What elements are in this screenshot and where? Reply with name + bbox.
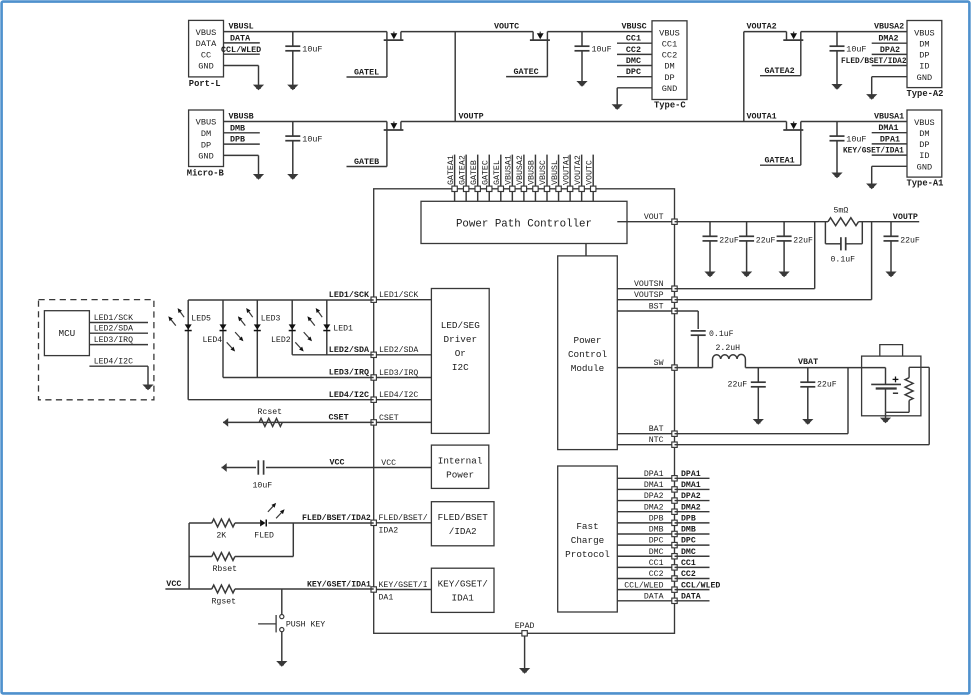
- svg-text:DPA1: DPA1: [880, 134, 900, 144]
- svg-text:Micro-B: Micro-B: [187, 169, 225, 179]
- transistor GATEB FET: [384, 122, 404, 131]
- svg-text:DP: DP: [664, 73, 674, 83]
- capacitor 0.1uF (BST): [691, 330, 734, 367]
- svg-text:VOUTSP: VOUTSP: [634, 291, 664, 300]
- svg-text:KEY/GSET/IDA1: KEY/GSET/IDA1: [307, 579, 371, 589]
- svg-text:VBUSA2: VBUSA2: [874, 22, 904, 32]
- svg-text:CC2: CC2: [626, 45, 641, 55]
- svg-text:DA1: DA1: [379, 593, 394, 602]
- ground Type-A2: [866, 94, 877, 100]
- svg-text:VBUSA1: VBUSA1: [505, 155, 514, 185]
- wire junction VOUTC/VOUTP: [454, 32, 456, 122]
- wire SW row: [675, 367, 713, 369]
- svg-text:0.1uF: 0.1uF: [709, 330, 734, 339]
- svg-text:GND: GND: [662, 84, 677, 94]
- pin VOUTSN (right): [617, 280, 677, 291]
- svg-text:Type-A1: Type-A1: [907, 178, 944, 188]
- svg-text:ID: ID: [919, 151, 929, 161]
- pin DPB (right FCP): [617, 514, 677, 525]
- svg-text:CC1: CC1: [681, 559, 696, 568]
- wire LED2 rail: [291, 300, 293, 355]
- svg-text:CC2: CC2: [662, 51, 677, 61]
- svg-text:IDA2: IDA2: [379, 527, 399, 536]
- svg-text:VBUSL: VBUSL: [551, 160, 560, 185]
- svg-text:Type-C: Type-C: [654, 101, 686, 111]
- svg-text:10uF: 10uF: [302, 135, 322, 145]
- svg-text:LED3/IRQ: LED3/IRQ: [94, 335, 133, 345]
- pin VOUTC (top): [585, 155, 596, 202]
- pin VOUTA1 (top): [562, 155, 573, 202]
- wire stub DPA1: [872, 134, 907, 144]
- svg-text:DPA2: DPA2: [644, 492, 664, 501]
- wire Type-A1 GND: [872, 166, 907, 184]
- svg-text:BAT: BAT: [649, 425, 664, 434]
- wire VOUTSP trace: [675, 222, 872, 300]
- svg-text:DATA: DATA: [644, 592, 664, 601]
- wire GATEL gate: [347, 40, 387, 77]
- ground Micro-B: [253, 174, 264, 180]
- svg-text:DPA2: DPA2: [880, 45, 900, 55]
- wire row2 GATEA1-TypeA1: [801, 121, 907, 123]
- svg-text:DPB: DPB: [649, 514, 664, 523]
- svg-text:VBUSC: VBUSC: [539, 160, 548, 185]
- svg-text:Driver: Driver: [444, 334, 477, 345]
- resistor 2K: [212, 519, 235, 527]
- svg-text:CC2: CC2: [681, 570, 696, 579]
- wire VCC net: [222, 467, 374, 469]
- svg-text:GND: GND: [917, 73, 932, 83]
- svg-text:VOUTP: VOUTP: [893, 212, 918, 222]
- wire stub CC2 (external): [675, 570, 710, 579]
- pin CCL/WLED (right FCP): [617, 580, 677, 592]
- svg-text:2K: 2K: [216, 531, 226, 540]
- wire LED1/SCK net: [188, 299, 374, 301]
- svg-text:CC2: CC2: [649, 570, 664, 579]
- svg-text:LED2: LED2: [271, 336, 291, 345]
- svg-text:CCL/WLED: CCL/WLED: [681, 580, 720, 590]
- block Internal Power: [431, 445, 488, 488]
- pin NTC (right): [617, 436, 677, 447]
- ground Port-L: [253, 85, 264, 91]
- pin VBUSB (top): [528, 155, 539, 202]
- wire GATEA2 gate: [760, 40, 801, 76]
- svg-text:22uF: 22uF: [817, 380, 837, 389]
- ground Type-A1: [866, 184, 877, 190]
- wire Micro-B GND: [224, 155, 259, 174]
- svg-text:GATEA2: GATEA2: [765, 66, 795, 76]
- svg-text:LED2/SDA: LED2/SDA: [379, 345, 418, 355]
- pin CC1 (right FCP): [617, 559, 677, 570]
- svg-text:DMC: DMC: [626, 56, 641, 66]
- svg-text:DMA2: DMA2: [681, 503, 701, 512]
- svg-text:Port-L: Port-L: [189, 79, 221, 89]
- pin CSET (left): [371, 414, 431, 425]
- svg-text:22uF: 22uF: [728, 380, 748, 389]
- wire stub CCL/WLED (external): [675, 580, 721, 590]
- wire push key to ground: [281, 632, 283, 662]
- svg-text:GND: GND: [198, 62, 213, 72]
- svg-text:GATEA2: GATEA2: [458, 155, 467, 185]
- svg-text:DM: DM: [201, 129, 211, 139]
- transistor GATEA1 FET: [783, 122, 803, 131]
- svg-text:VBUS: VBUS: [914, 118, 935, 128]
- pin GATEB (top): [470, 155, 481, 202]
- transistor GATEC FET: [530, 32, 550, 40]
- connector Type-A1: [907, 110, 944, 188]
- svg-text:Module: Module: [571, 363, 604, 374]
- svg-text:IDA1: IDA1: [452, 593, 475, 604]
- capacitor 10uF (Micro-B): [285, 122, 322, 180]
- resistor 5mOhm sense: [828, 218, 859, 226]
- wire VBUSB from Micro-B: [224, 121, 387, 123]
- wire stub KEY/GSET/IDA1 (Type-A1): [843, 148, 907, 156]
- svg-text:CCL/WLED: CCL/WLED: [624, 580, 663, 590]
- capacitor 10uF (Type-C): [575, 32, 612, 87]
- svg-text:VCC: VCC: [381, 459, 396, 468]
- connector Type-A2: [907, 21, 944, 99]
- wire NTC trace: [675, 367, 930, 444]
- svg-text:10uF: 10uF: [592, 45, 612, 55]
- pin LED3/IRQ (left): [371, 368, 431, 380]
- capacitor 0.1uF sense bypass: [825, 222, 862, 265]
- svg-text:DPC: DPC: [649, 537, 664, 546]
- wire stub DPA2: [872, 45, 907, 55]
- svg-text:KEY/GSET/I: KEY/GSET/I: [379, 580, 428, 590]
- pin LED2/SDA (left): [371, 345, 431, 357]
- wire PPC to PCM: [585, 244, 587, 256]
- svg-text:DPA1: DPA1: [644, 470, 664, 479]
- svg-text:2.2uH: 2.2uH: [716, 344, 741, 353]
- wire LED5 rail: [187, 300, 189, 400]
- wire BST trace: [675, 311, 699, 329]
- svg-text:VBUSA1: VBUSA1: [874, 112, 904, 122]
- svg-text:VBAT: VBAT: [798, 357, 818, 367]
- svg-text:KEY/GSET/: KEY/GSET/: [438, 579, 489, 590]
- svg-text:VOUTC: VOUTC: [494, 22, 519, 32]
- wire row1 GATEA2-TypeA2: [801, 31, 907, 33]
- resistor Rbset: [212, 553, 235, 561]
- diode LED2: [289, 324, 296, 329]
- svg-text:/IDA2: /IDA2: [449, 526, 477, 537]
- svg-text:CC: CC: [201, 50, 211, 60]
- pin FLED/BSET/IDA2 (left): [371, 513, 431, 535]
- svg-text:FLED/BSET/IDA2: FLED/BSET/IDA2: [841, 58, 907, 66]
- svg-text:DP: DP: [919, 140, 929, 150]
- capacitor 22uF #2 (VOUT): [739, 222, 775, 278]
- svg-text:LED4/I2C: LED4/I2C: [379, 390, 418, 400]
- svg-text:NTC: NTC: [649, 436, 664, 445]
- svg-text:10uF: 10uF: [253, 482, 273, 491]
- svg-text:VOUTC: VOUTC: [585, 160, 594, 185]
- LED4 emission arrows: [227, 332, 244, 351]
- svg-text:VCC: VCC: [330, 458, 345, 468]
- wire MCU LED2/SDA: [89, 324, 148, 334]
- svg-text:0.1uF: 0.1uF: [831, 256, 856, 265]
- pin KEY/GSET/IDA1 (left): [371, 580, 431, 602]
- wire stub CC2 (Type-C): [617, 45, 652, 55]
- svg-text:DMA1: DMA1: [681, 481, 701, 490]
- pin VOUTSP (right): [617, 291, 677, 302]
- wire stub DATA: [224, 33, 260, 43]
- svg-text:VBUS: VBUS: [659, 28, 680, 38]
- svg-text:10uF: 10uF: [302, 45, 322, 55]
- wire row1 GATEC-TypeC: [547, 31, 652, 33]
- svg-text:DMA2: DMA2: [878, 34, 898, 44]
- capacitor 22uF (VOUTP): [884, 222, 920, 278]
- wire stub DPB (external): [675, 514, 710, 523]
- pin EPAD (bottom): [515, 622, 535, 669]
- svg-text:DMB: DMB: [649, 526, 664, 535]
- pin DPC (right FCP): [617, 537, 677, 548]
- svg-text:VOUTA1: VOUTA1: [562, 155, 571, 185]
- svg-text:FLED/BSET: FLED/BSET: [438, 512, 489, 523]
- svg-text:Control: Control: [568, 349, 607, 360]
- svg-text:Power: Power: [446, 469, 474, 480]
- svg-text:EPAD: EPAD: [515, 622, 535, 631]
- svg-text:Power: Power: [574, 335, 602, 346]
- LED2 emission arrows: [295, 332, 312, 351]
- svg-text:GATEC: GATEC: [481, 160, 490, 185]
- pin LED4/I2C (left): [371, 390, 431, 402]
- svg-text:DPB: DPB: [230, 135, 245, 145]
- svg-text:22uF: 22uF: [900, 236, 920, 245]
- block MCU: [44, 311, 89, 356]
- svg-text:GATEL: GATEL: [354, 67, 379, 77]
- svg-text:DATA: DATA: [196, 39, 217, 49]
- wire stub CCL/WLED: [221, 45, 261, 55]
- thermistor NTC (in pack): [905, 367, 913, 412]
- wire VOUTSN trace: [675, 222, 815, 289]
- capacitor 22uF (VBAT): [800, 368, 836, 425]
- svg-text:Protocol: Protocol: [565, 549, 610, 560]
- svg-text:Rgset: Rgset: [212, 598, 237, 607]
- svg-text:CC1: CC1: [626, 34, 641, 44]
- connector Type-C: [652, 21, 687, 111]
- pin SW (right): [617, 359, 677, 370]
- wire row2 VOUTP: [401, 121, 787, 123]
- connector Port-L: [189, 20, 224, 89]
- wire stub DPA1 (external): [675, 470, 710, 479]
- svg-text:CCL/WLED: CCL/WLED: [221, 45, 261, 55]
- ground battery: [880, 418, 891, 424]
- wire stub DPA2 (external): [675, 492, 710, 501]
- wire LED1 rail: [326, 300, 328, 355]
- pin DMA1 (right FCP): [617, 481, 677, 492]
- svg-text:VBUSA2: VBUSA2: [516, 155, 525, 185]
- wire BAT trace: [675, 368, 849, 434]
- pin CC2 (right FCP): [617, 570, 677, 581]
- svg-text:FLED/BSET/: FLED/BSET/: [379, 513, 428, 523]
- wire Port-L GND: [224, 66, 259, 86]
- wire stub DMB: [224, 123, 260, 133]
- svg-text:LED1/SCK: LED1/SCK: [94, 313, 133, 323]
- diode FLED: [260, 520, 265, 527]
- wire VOUT row: [675, 221, 920, 223]
- svg-text:GATEA1: GATEA1: [765, 156, 795, 166]
- connector Micro-B: [187, 110, 225, 179]
- pin DMB (right FCP): [617, 526, 677, 537]
- svg-text:VBUSB: VBUSB: [229, 112, 254, 122]
- diode LED1: [323, 324, 330, 329]
- pin DMA2 (right FCP): [617, 503, 677, 514]
- svg-text:VCC: VCC: [166, 579, 181, 589]
- svg-text:5mΩ: 5mΩ: [834, 207, 849, 216]
- resistor Rgset: [212, 585, 235, 593]
- svg-text:DMB: DMB: [681, 526, 696, 535]
- svg-text:DP: DP: [201, 140, 211, 150]
- wire stub DMA2: [872, 34, 907, 44]
- svg-text:VOUT: VOUT: [644, 213, 664, 222]
- svg-text:LED1: LED1: [333, 325, 353, 334]
- svg-text:GND: GND: [917, 162, 932, 172]
- svg-text:Fast: Fast: [576, 521, 598, 532]
- ground EPAD: [519, 668, 530, 674]
- block Power Path Controller: [421, 201, 627, 243]
- svg-text:10uF: 10uF: [846, 45, 866, 55]
- svg-text:DMB: DMB: [230, 123, 245, 133]
- svg-text:VBUSB: VBUSB: [528, 160, 537, 185]
- capacitor 22uF #3 (VOUT): [777, 222, 813, 278]
- LED5 emission arrows: [168, 308, 184, 326]
- pin VOUT (right): [617, 213, 677, 224]
- wire stub DPC (external): [675, 537, 710, 546]
- svg-text:22uF: 22uF: [719, 236, 739, 245]
- svg-text:LED3/IRQ: LED3/IRQ: [329, 368, 369, 378]
- wire stub DMB (external): [675, 526, 710, 535]
- svg-text:DATA: DATA: [681, 592, 701, 601]
- pin GATEA1 (top): [447, 155, 458, 202]
- svg-text:LED2/SDA: LED2/SDA: [329, 345, 370, 355]
- svg-text:GATEA1: GATEA1: [447, 155, 456, 185]
- block KEY/GSET/IDA1: [431, 568, 494, 612]
- pin GATEC (top): [481, 155, 491, 202]
- block Fast Charge Protocol: [558, 466, 618, 612]
- wire junction VOUTA2 riser: [743, 32, 745, 122]
- svg-text:DMA1: DMA1: [878, 123, 898, 133]
- net pointer arrow CSET: [223, 418, 228, 427]
- capacitor 10uF (Type-A1): [830, 122, 867, 179]
- wire LED3/IRQ net: [223, 377, 374, 379]
- svg-text:GND: GND: [198, 152, 213, 162]
- diode LED3: [254, 324, 261, 329]
- svg-text:VBUSL: VBUSL: [229, 22, 254, 32]
- svg-text:Or: Or: [455, 348, 466, 359]
- pin VOUTA2 (top): [574, 155, 585, 202]
- diode LED4: [220, 324, 227, 329]
- capacitor 10uF (Port-L): [285, 32, 322, 91]
- wire left rail (2K/Rbset/Rgset): [188, 523, 190, 589]
- svg-text:PUSH KEY: PUSH KEY: [286, 620, 325, 629]
- svg-text:DMA2: DMA2: [644, 503, 664, 512]
- svg-text:LED1/SCK: LED1/SCK: [379, 290, 418, 300]
- svg-text:BST: BST: [649, 302, 664, 311]
- switch PUSH KEY: [258, 615, 325, 633]
- wire stub FLED/BSET/IDA2 (Type-A2): [841, 58, 907, 66]
- wire LED3 rail: [256, 300, 258, 378]
- svg-text:LED4/I2C: LED4/I2C: [329, 390, 369, 400]
- battery cell BT1: [871, 368, 901, 413]
- transistor GATEA2 FET: [783, 32, 803, 40]
- capacitor 22uF (SW): [728, 368, 766, 425]
- svg-text:MCU: MCU: [59, 328, 76, 339]
- svg-text:Type-A2: Type-A2: [907, 89, 944, 99]
- svg-text:I2C: I2C: [452, 362, 469, 373]
- pin VBUSL (top): [551, 155, 562, 202]
- pin BST (right): [617, 302, 677, 313]
- svg-text:VOUTA1: VOUTA1: [747, 112, 777, 122]
- wire battery bottom: [886, 412, 910, 418]
- wire push key drop: [281, 589, 283, 615]
- wire 2K row: [189, 522, 374, 524]
- wire LED4 rail: [222, 300, 224, 378]
- svg-text:DMA1: DMA1: [644, 481, 664, 490]
- svg-text:VOUTP: VOUTP: [459, 112, 484, 122]
- svg-text:CC1: CC1: [662, 39, 677, 49]
- svg-text:DM: DM: [919, 129, 929, 139]
- block FLED/BSET/IDA2: [431, 502, 494, 546]
- wire VBAT row: [745, 367, 885, 369]
- ground MCU LED4/I2C: [142, 385, 153, 391]
- capacitor 10uF (VCC): [258, 460, 263, 474]
- svg-text:KEY/GSET/IDA1: KEY/GSET/IDA1: [843, 148, 904, 156]
- pin LED1/SCK (left): [371, 290, 431, 302]
- wire LED2/SDA net: [292, 354, 374, 356]
- wire GATEB gate: [347, 130, 387, 167]
- svg-text:DPC: DPC: [681, 537, 696, 546]
- wire CSET net: [223, 421, 374, 423]
- svg-text:LED4: LED4: [203, 336, 223, 345]
- wire stub DMA1: [872, 123, 907, 133]
- svg-text:LED5: LED5: [191, 315, 211, 324]
- wire stub CC1 (external): [675, 559, 710, 568]
- svg-text:VBUS: VBUS: [196, 28, 217, 38]
- capacitor 10uF (Type-A2): [830, 32, 867, 90]
- wire MCU LED1/SCK: [89, 313, 148, 323]
- wire LED4/I2C net: [188, 399, 374, 401]
- wire stub DMA1 (external): [675, 481, 710, 490]
- pin VBUSC (top): [539, 155, 550, 202]
- wire MCU LED4/I2C: [89, 357, 148, 385]
- svg-text:DMC: DMC: [681, 548, 696, 557]
- svg-text:FLED/BSET/IDA2: FLED/BSET/IDA2: [302, 513, 371, 523]
- ground PUSH KEY: [276, 661, 287, 667]
- svg-text:DPA2: DPA2: [681, 492, 701, 501]
- pin DMC (right FCP): [617, 548, 677, 559]
- LED3 emission arrows: [238, 308, 253, 326]
- wire stub DMA2 (external): [675, 503, 710, 512]
- LED1 emission arrows: [307, 308, 322, 326]
- svg-text:GATEC: GATEC: [514, 67, 539, 77]
- svg-text:ID: ID: [919, 62, 929, 72]
- wire Rbset branch: [189, 523, 293, 557]
- svg-text:10uF: 10uF: [846, 135, 866, 145]
- pin BAT (right): [617, 425, 677, 436]
- wire stub DMC (Type-C): [617, 56, 652, 66]
- svg-text:DMC: DMC: [649, 548, 664, 557]
- block Power Control Module: [558, 256, 618, 450]
- svg-text:LED3: LED3: [261, 315, 281, 324]
- wire GATEC gate: [506, 40, 547, 77]
- svg-text:22uF: 22uF: [756, 236, 776, 245]
- wire Type-A2 GND: [872, 77, 907, 95]
- diode LED5: [185, 324, 192, 329]
- wire VBUSL from Port-L: [224, 31, 387, 33]
- svg-text:GATEB: GATEB: [354, 157, 379, 167]
- pin GATEA2 (top): [458, 155, 469, 202]
- svg-text:Charge: Charge: [571, 535, 604, 546]
- pin DPA1 (right FCP): [617, 470, 677, 481]
- wire GATEA1 gate: [760, 130, 801, 165]
